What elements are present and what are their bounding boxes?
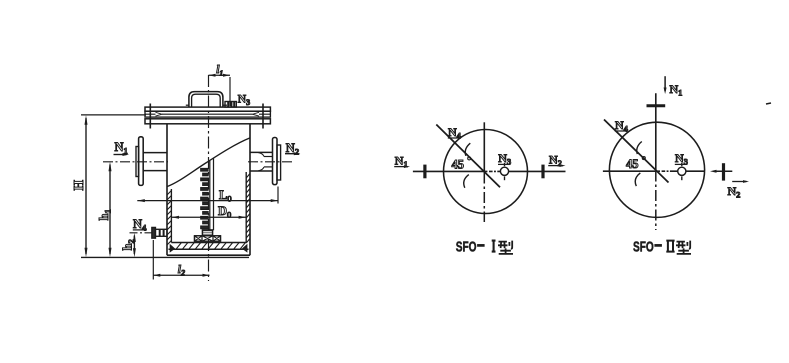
lid lower flange ring: [145, 119, 270, 124]
SFO-II 45 degree arc lower: [635, 173, 640, 186]
nozzle N2 flange: [273, 138, 281, 185]
stray scan mark: [766, 103, 771, 104]
SFO-I label N4: [448, 125, 462, 141]
SFO-II N4 diagonal nozzle line: [604, 120, 669, 183]
lid bolt left: [149, 104, 151, 129]
shell left wall: [166, 124, 168, 255]
SFO-I right flange tick N2: [541, 165, 544, 179]
N1 centreline: [103, 161, 168, 163]
nozzle N1 pipe: [143, 153, 167, 171]
dimension l1: [209, 64, 231, 106]
dimension h2 vertical line: [121, 233, 137, 257]
svg-text:SFO: SFO: [633, 239, 654, 256]
SFO-II right flange tick N2: [722, 163, 725, 180]
svg-text:SFO: SFO: [456, 239, 477, 256]
filter basket right wall: [210, 158, 214, 230]
SFO-I horizontal centreline: [413, 170, 566, 172]
SFO-II N1 flow arrow: [664, 76, 667, 94]
SFO-II top flange tick N1: [647, 104, 666, 107]
SFO-I label N2: [548, 153, 565, 169]
dimension l2: [153, 240, 209, 280]
left wall hatching: [167, 191, 171, 246]
shell right wall inner (section): [245, 172, 247, 243]
nozzle N1 flange: [136, 137, 143, 186]
dimension D0: [172, 204, 247, 220]
SFO-I vertical centreline: [483, 122, 485, 222]
SFO-I centreline dash gaps: [487, 170, 497, 173]
svg-text:l2: l2: [178, 264, 185, 278]
label N1 with flow arrow: [114, 140, 130, 156]
svg-text:N1: N1: [670, 82, 683, 98]
SFO-I label N3: [498, 151, 511, 167]
H top extension line: [81, 114, 146, 116]
dimension H vertical line: [71, 115, 88, 257]
dimension h1 vertical line: [97, 162, 113, 257]
SFO-I label N1: [394, 153, 410, 169]
SFO-II centreline dash gaps: [660, 170, 670, 173]
bottom plate (hatched): [169, 243, 249, 253]
shell right wall: [249, 124, 251, 255]
filter basket slotted face (coil): [201, 168, 209, 228]
SFO-II horizontal centreline: [603, 170, 705, 172]
SFO-I 45 degree arc lower: [464, 175, 469, 188]
nozzle N4 stub: [152, 228, 167, 239]
svg-text:N1: N1: [115, 140, 128, 156]
SFO-II label N4: [615, 118, 629, 134]
SFO-I shell circle: [444, 130, 528, 214]
SFO-II shell circle: [609, 122, 704, 217]
right wall hatching: [246, 174, 250, 244]
lid top cover plate: [145, 107, 270, 111]
basket bottom stub: [202, 230, 212, 236]
SFO-I left flange tick N1: [423, 165, 426, 179]
SFO-II nozzle N3 circle: [678, 163, 686, 180]
SFO-I 45 degree arc upper: [465, 143, 470, 156]
label N4: [133, 217, 147, 233]
vessel centre line: [208, 75, 210, 281]
basket base bar with cross-hatched blocks: [195, 236, 221, 241]
nozzle N3 stub on lid: [225, 102, 236, 108]
dimension L0: [137, 187, 278, 204]
nozzle N2 pipe: [250, 152, 273, 171]
lid bolt right: [262, 104, 264, 129]
lid upper flange band: [145, 111, 270, 117]
svg-text:D0: D0: [218, 204, 231, 220]
svg-text:L0: L0: [219, 188, 232, 204]
N4 centreline: [130, 232, 153, 234]
internal level / break curve: [167, 138, 249, 187]
SFO-II N2 flow arrow: [710, 170, 732, 173]
SFO-II label N2: [728, 180, 750, 199]
baseline extension line: [81, 256, 249, 258]
svg-text:h1: h1: [97, 209, 113, 220]
svg-text:45: 45: [452, 158, 465, 172]
SFO-I nozzle N3 circle: [500, 163, 508, 180]
label N2 with flow arrow: [285, 141, 300, 157]
shell left wall inner (section): [170, 189, 172, 243]
svg-text:H: H: [71, 180, 86, 191]
SFO-I N4 diagonal nozzle line: [436, 125, 500, 188]
vessel bottom edge: [167, 254, 250, 256]
svg-text:N3: N3: [238, 94, 250, 108]
SFO-II label N3: [675, 151, 688, 167]
SFO-II 45 degree arc upper: [637, 142, 642, 155]
SFO-II vertical centreline: [655, 93, 657, 230]
svg-text:h2: h2: [121, 239, 137, 250]
N2 centreline: [248, 161, 294, 163]
lifting handle: [186, 92, 227, 107]
svg-text:N2: N2: [728, 184, 741, 200]
svg-text:45: 45: [626, 157, 639, 171]
svg-text:l1: l1: [216, 64, 223, 78]
